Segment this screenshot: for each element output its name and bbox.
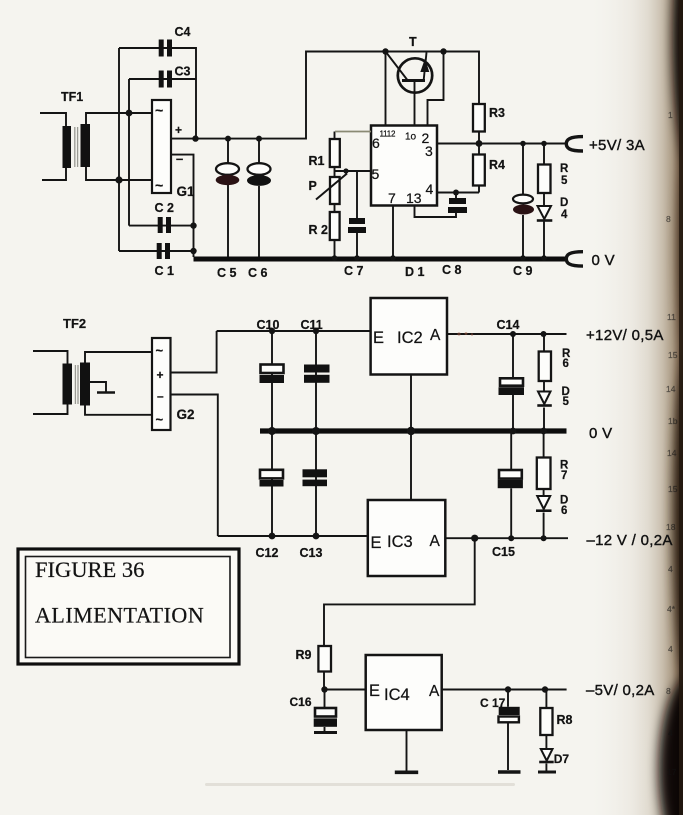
svg-text:0 V: 0 V <box>589 425 612 442</box>
svg-text:+12V/ 0,5A: +12V/ 0,5A <box>586 327 664 344</box>
svg-text:C 1: C 1 <box>155 264 175 278</box>
svg-text:A: A <box>429 683 440 700</box>
svg-text:–: – <box>176 151 183 166</box>
svg-text:5: 5 <box>561 175 568 187</box>
svg-text:C4: C4 <box>175 25 191 39</box>
svg-text:D 1: D 1 <box>405 265 425 279</box>
svg-text:4: 4 <box>668 564 673 574</box>
svg-text:14: 14 <box>667 448 677 458</box>
svg-text:R4: R4 <box>489 158 505 172</box>
svg-text:~: ~ <box>155 177 163 193</box>
svg-text:IC2: IC2 <box>397 329 423 347</box>
svg-text:+: + <box>175 123 182 137</box>
svg-text:T: T <box>409 35 417 49</box>
svg-text:ALIMENTATION: ALIMENTATION <box>35 603 204 628</box>
svg-text:R 2: R 2 <box>309 223 329 237</box>
svg-text:1o: 1o <box>405 132 417 143</box>
svg-text:4: 4 <box>668 644 673 654</box>
svg-text:4: 4 <box>561 209 568 221</box>
svg-text:R: R <box>560 163 569 175</box>
svg-text:~: ~ <box>156 343 164 358</box>
svg-text:5: 5 <box>563 396 570 408</box>
svg-text:0 V: 0 V <box>592 252 615 269</box>
svg-text:A: A <box>430 533 441 550</box>
svg-text:IC4: IC4 <box>384 686 410 704</box>
svg-text:~: ~ <box>156 412 164 427</box>
svg-text:4*: 4* <box>667 604 676 614</box>
svg-text:6: 6 <box>563 358 569 370</box>
svg-text:C11: C11 <box>301 318 323 332</box>
svg-text:C10: C10 <box>257 318 280 332</box>
svg-text:15: 15 <box>668 484 678 494</box>
svg-text:+5V/ 3A: +5V/ 3A <box>589 137 645 154</box>
svg-text:R3: R3 <box>489 106 505 120</box>
svg-text:E: E <box>371 534 382 552</box>
svg-text:18: 18 <box>666 522 676 532</box>
svg-text:13: 13 <box>406 190 422 206</box>
svg-text:1b: 1b <box>668 416 678 426</box>
svg-text:4: 4 <box>426 181 434 197</box>
svg-text:TF1: TF1 <box>61 90 83 104</box>
svg-text:15: 15 <box>668 350 678 360</box>
svg-text:C3: C3 <box>175 65 191 79</box>
svg-text:–5V/ 0,2A: –5V/ 0,2A <box>586 682 655 699</box>
svg-text:P: P <box>309 179 317 193</box>
svg-text:3: 3 <box>425 143 433 159</box>
svg-text:E: E <box>369 682 380 700</box>
svg-text:R1: R1 <box>309 154 325 168</box>
svg-text:14: 14 <box>666 384 676 394</box>
svg-text:G1: G1 <box>177 184 196 199</box>
svg-text:7: 7 <box>561 470 567 482</box>
svg-text:5: 5 <box>372 166 380 182</box>
svg-text:C 7: C 7 <box>344 264 364 278</box>
svg-text:C 8: C 8 <box>442 263 462 277</box>
svg-text:C 2: C 2 <box>155 201 175 215</box>
svg-text:11: 11 <box>667 312 676 322</box>
svg-text:~: ~ <box>155 102 163 118</box>
svg-text:D7: D7 <box>554 752 570 766</box>
svg-text:C13: C13 <box>300 546 323 560</box>
svg-text:IC3: IC3 <box>387 533 413 551</box>
svg-text:C 17: C 17 <box>480 696 506 710</box>
svg-text:A: A <box>430 327 441 344</box>
svg-text:G2: G2 <box>177 407 195 422</box>
svg-text:–: – <box>157 389 164 403</box>
svg-text:4: 4 <box>668 728 673 738</box>
svg-text:C 5: C 5 <box>217 266 237 280</box>
svg-text:C16: C16 <box>290 695 312 709</box>
svg-text:C 9: C 9 <box>513 264 533 278</box>
svg-text:+: + <box>157 368 164 382</box>
svg-text:7: 7 <box>388 190 396 206</box>
svg-text:FIGURE 36: FIGURE 36 <box>35 557 144 582</box>
svg-text:C12: C12 <box>256 546 279 560</box>
svg-text:8: 8 <box>666 214 671 224</box>
svg-text:C 6: C 6 <box>248 266 268 280</box>
svg-text:–12 V / 0,2A: –12 V / 0,2A <box>587 532 673 549</box>
svg-text:C15: C15 <box>492 545 515 559</box>
svg-text:E: E <box>373 329 384 347</box>
svg-text:6: 6 <box>561 505 567 517</box>
svg-text:17: 17 <box>667 767 677 777</box>
svg-text:R9: R9 <box>296 648 312 662</box>
svg-text:R8: R8 <box>557 713 573 727</box>
svg-text:C14: C14 <box>497 318 520 332</box>
svg-text:1: 1 <box>668 110 673 120</box>
svg-text:1112: 1112 <box>380 130 397 139</box>
svg-text:TF2: TF2 <box>63 316 86 331</box>
svg-text:D: D <box>560 197 568 209</box>
svg-text:8: 8 <box>666 686 671 696</box>
